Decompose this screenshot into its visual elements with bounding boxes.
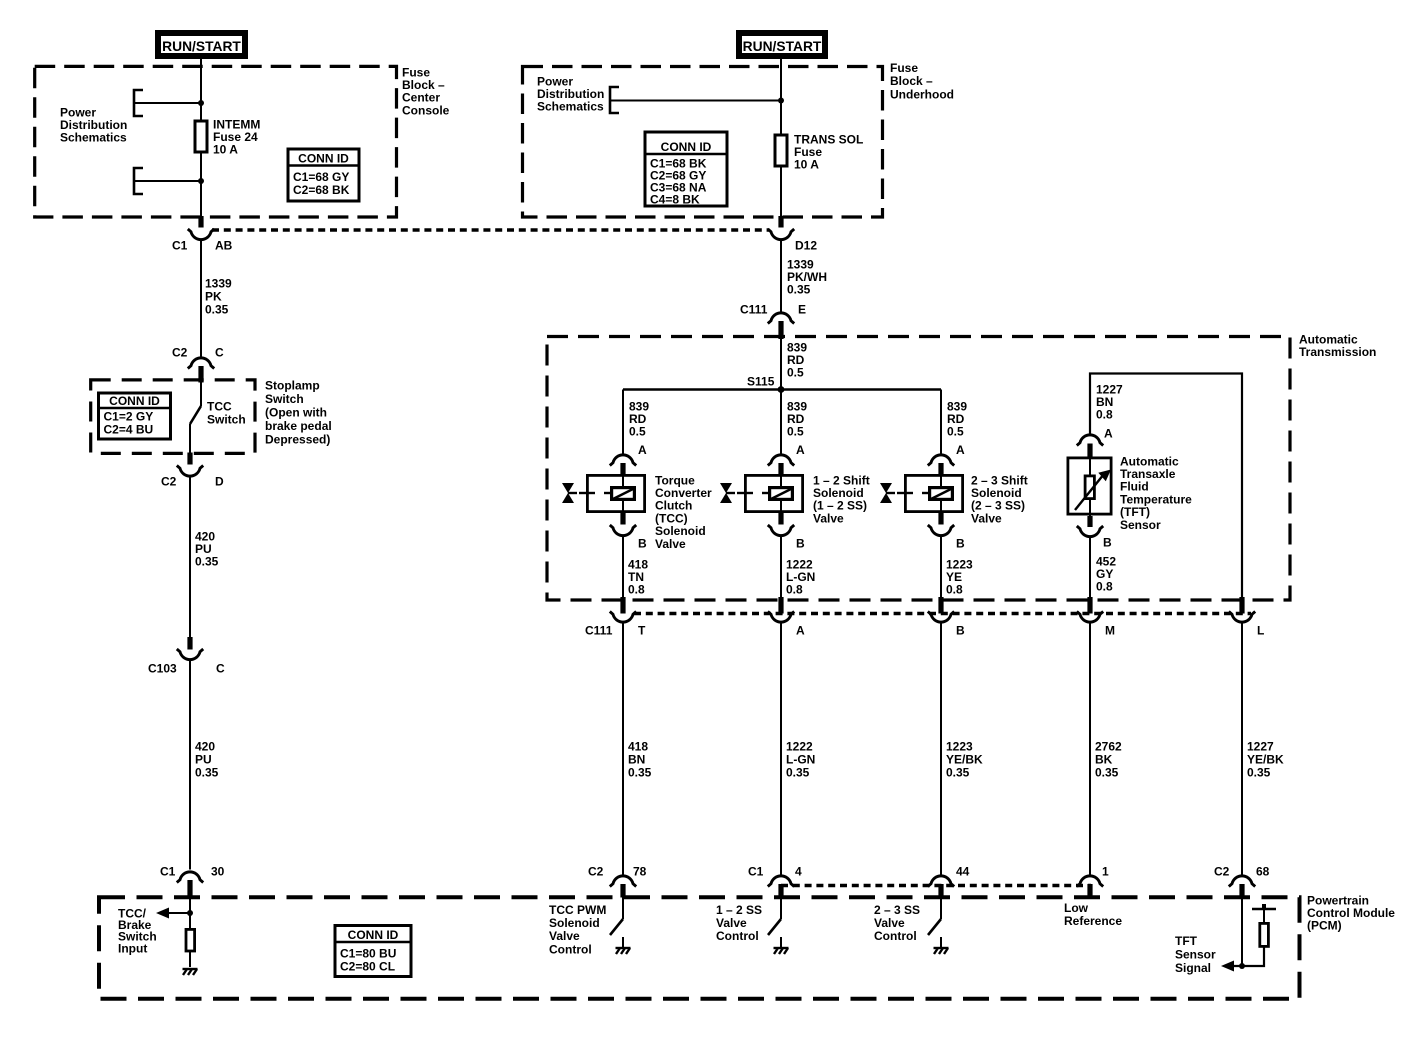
connector C2 pin D bbox=[161, 453, 224, 489]
svg-text:Transmission: Transmission bbox=[1299, 345, 1376, 359]
svg-text:Low: Low bbox=[1064, 901, 1089, 915]
svg-text:Control: Control bbox=[874, 929, 917, 943]
dotted harness line below transmission bbox=[634, 612, 1251, 615]
wire S115 bus bbox=[623, 388, 941, 391]
svg-text:E: E bbox=[798, 302, 806, 316]
svg-text:0.35: 0.35 bbox=[205, 302, 229, 316]
wire TCC solenoid pin B down bbox=[622, 536, 624, 604]
wire C111 E to splice S115 bbox=[780, 337, 782, 390]
svg-text:Block –: Block – bbox=[890, 74, 933, 88]
svg-text:0.5: 0.5 bbox=[787, 425, 804, 439]
connector C111 pin T bbox=[585, 597, 646, 637]
label fuse 24 bbox=[213, 117, 260, 156]
label TCC/Brake Switch Input bbox=[118, 906, 157, 955]
wire pin into PCM driver 2 bbox=[780, 897, 782, 919]
svg-text:Valve: Valve bbox=[655, 537, 686, 551]
svg-text:Schematics: Schematics bbox=[537, 100, 604, 114]
bracket to power distribution (lower) bbox=[134, 168, 143, 194]
svg-text:YE/BK: YE/BK bbox=[1247, 752, 1284, 766]
label Power Distribution Schematics (right) bbox=[537, 74, 604, 113]
svg-text:2 – 3 SS: 2 – 3 SS bbox=[874, 903, 920, 917]
svg-text:Underhood: Underhood bbox=[890, 87, 954, 101]
svg-text:Valve: Valve bbox=[813, 511, 844, 525]
svg-text:PK: PK bbox=[205, 289, 222, 303]
svg-text:Reference: Reference bbox=[1064, 914, 1122, 928]
svg-text:0.35: 0.35 bbox=[1247, 765, 1271, 779]
label Powertrain Control Module (PCM) bbox=[1307, 893, 1395, 932]
svg-text:C103: C103 bbox=[148, 661, 177, 675]
svg-text:M: M bbox=[1105, 623, 1115, 637]
svg-text:1: 1 bbox=[1102, 864, 1109, 878]
wire resistor to signal node bbox=[1233, 945, 1264, 966]
label TCC PWM Solenoid Valve Control bbox=[549, 903, 606, 957]
svg-text:C1=2 GY: C1=2 GY bbox=[104, 409, 154, 423]
svg-text:D: D bbox=[215, 474, 224, 488]
svg-text:68: 68 bbox=[1256, 864, 1270, 878]
svg-text:C1: C1 bbox=[160, 864, 176, 878]
wire 1222/L-GN/0.35 to PCM bbox=[780, 623, 782, 875]
connector C103 pin C bbox=[148, 637, 225, 675]
label wire 1223/YE/0.8 bbox=[946, 557, 973, 596]
bracket to power distribution (right block) bbox=[610, 87, 619, 113]
svg-text:30: 30 bbox=[211, 864, 225, 878]
svg-text:C1=80 BU: C1=80 BU bbox=[340, 947, 396, 961]
label 1 - 2 SS Valve Control bbox=[716, 903, 762, 943]
splice S115 bbox=[747, 374, 784, 393]
svg-text:L-GN: L-GN bbox=[786, 752, 815, 766]
svg-text:0.5: 0.5 bbox=[787, 366, 804, 380]
label wire 1339 PK/WH 0.35 bbox=[787, 257, 827, 296]
dotted harness line between pins 44 and 1 bbox=[781, 884, 1091, 887]
svg-text:(Open with: (Open with bbox=[265, 405, 327, 419]
svg-text:C2: C2 bbox=[1214, 864, 1230, 878]
wire pin into PCM driver 3 bbox=[940, 897, 942, 919]
wire bracket to node (lower) bbox=[134, 180, 201, 182]
label wire 1227/YE/BK/0.35 bbox=[1247, 739, 1284, 779]
svg-text:418: 418 bbox=[628, 739, 648, 753]
label Power Distribution Schematics (left) bbox=[60, 105, 127, 144]
svg-text:RUN/START: RUN/START bbox=[743, 39, 822, 54]
wire D12 to C111 pin E, circuit 1339 PK/WH bbox=[780, 240, 782, 312]
label wire 418/TN/0.8 bbox=[628, 557, 648, 596]
svg-text:C111: C111 bbox=[740, 302, 768, 316]
pin A connector of 1-2 shift solenoid bbox=[768, 443, 805, 475]
svg-text:AB: AB bbox=[215, 238, 233, 252]
arrow TFT sensor signal bbox=[1221, 961, 1234, 972]
wire S115 branch to 2-3 shift solenoid pin A bbox=[940, 390, 942, 456]
svg-text:0.8: 0.8 bbox=[1096, 580, 1113, 594]
label automatic transaxle fluid temperature TFT sensor bbox=[1120, 454, 1192, 532]
label 2-3 shift solenoid valve bbox=[971, 473, 1028, 525]
wire bracket to node bbox=[134, 102, 201, 104]
connector C111 pin L bbox=[1229, 597, 1265, 637]
wire supply to resistor bbox=[1263, 909, 1265, 923]
label Fuse Block - Underhood bbox=[890, 61, 954, 102]
svg-text:CONN ID: CONN ID bbox=[298, 151, 349, 165]
svg-text:C1: C1 bbox=[172, 238, 188, 252]
arrow TCC/brake switch input bbox=[156, 908, 169, 919]
svg-text:C1: C1 bbox=[748, 864, 764, 878]
svg-text:TFT: TFT bbox=[1175, 934, 1198, 948]
label TCC solenoid valve bbox=[655, 473, 712, 551]
wire C1 AB to C2 C, circuit 1339 PK bbox=[200, 240, 202, 357]
ground (PCM internal, left) bbox=[183, 969, 198, 975]
label wire 2762/BK/0.35 bbox=[1095, 739, 1122, 779]
label wire 839 RD 0.5 (feed) bbox=[787, 340, 807, 379]
switch PCM driver 1 bbox=[610, 919, 623, 935]
label TFT Sensor Signal bbox=[1175, 934, 1216, 975]
svg-text:D12: D12 bbox=[795, 238, 817, 252]
svg-text:Sensor: Sensor bbox=[1175, 947, 1216, 961]
wire 1-2 shift solenoid pin B down bbox=[780, 536, 782, 604]
svg-text:C2: C2 bbox=[588, 864, 604, 878]
svg-text:10 A: 10 A bbox=[213, 143, 238, 157]
svg-text:0.8: 0.8 bbox=[1096, 408, 1113, 422]
label wire 1339 PK 0.35 bbox=[205, 276, 232, 316]
svg-text:RUN/START: RUN/START bbox=[162, 39, 241, 54]
svg-text:420: 420 bbox=[195, 739, 215, 753]
svg-text:0.8: 0.8 bbox=[628, 583, 645, 597]
TCC switch blade bbox=[190, 381, 201, 453]
wire TFT sensor pin B down, circuit 452 GY bbox=[1089, 537, 1091, 604]
CONN ID table (center console) bbox=[288, 149, 359, 201]
svg-text:0.8: 0.8 bbox=[946, 583, 963, 597]
pin B connector of TCC solenoid bbox=[610, 513, 647, 550]
label wire 452 GY 0.8 bbox=[1096, 554, 1116, 593]
node junction at fuse 24 top feed bbox=[198, 100, 204, 106]
svg-text:S115: S115 bbox=[747, 374, 775, 388]
node junction below fuse 24 bbox=[198, 178, 204, 184]
svg-text:Sensor: Sensor bbox=[1120, 518, 1161, 532]
stoplamp switch dashed box bbox=[91, 380, 255, 454]
pin B connector of 1-2 shift solenoid bbox=[768, 513, 805, 550]
svg-text:(PCM): (PCM) bbox=[1307, 919, 1342, 933]
PCM connector pin 4 bbox=[748, 864, 802, 897]
wire 418/BN/0.35 to PCM bbox=[622, 623, 624, 875]
automatic transmission dashed box bbox=[547, 337, 1290, 601]
wire 1223/YE/BK/0.35 to PCM bbox=[940, 623, 942, 875]
svg-text:44: 44 bbox=[956, 864, 970, 878]
CONN ID table (stoplamp switch) bbox=[99, 393, 171, 439]
label wire 839 RD 0.5 (TCC branch) bbox=[629, 399, 649, 438]
svg-text:0.35: 0.35 bbox=[786, 765, 810, 779]
svg-text:CONN ID: CONN ID bbox=[109, 394, 160, 408]
label wire 418/BN/0.35 bbox=[628, 739, 652, 779]
svg-text:TCC: TCC bbox=[207, 399, 232, 413]
svg-text:A: A bbox=[638, 443, 647, 457]
resistor R3 TFT bias bbox=[1260, 923, 1269, 946]
label Low Reference bbox=[1064, 901, 1122, 928]
svg-text:78: 78 bbox=[633, 864, 647, 878]
svg-text:Signal: Signal bbox=[1175, 961, 1211, 975]
wire to TCC brake arrow bbox=[168, 912, 190, 914]
svg-text:CONN ID: CONN ID bbox=[661, 140, 712, 154]
pin B connector of TFT sensor bbox=[1077, 516, 1112, 549]
svg-text:C2=80 CL: C2=80 CL bbox=[340, 960, 395, 974]
svg-text:Solenoid: Solenoid bbox=[549, 916, 600, 930]
svg-text:1222: 1222 bbox=[786, 739, 813, 753]
svg-text:0.35: 0.35 bbox=[195, 765, 219, 779]
svg-text:0.35: 0.35 bbox=[628, 765, 652, 779]
wire trans sol fuse to connector D12 bbox=[780, 167, 782, 216]
internal supply tick bbox=[1252, 908, 1276, 911]
label Automatic Transmission bbox=[1299, 332, 1376, 359]
svg-text:10 A: 10 A bbox=[794, 158, 819, 172]
powertrain control module dashed box bbox=[99, 897, 1300, 999]
PCM connector C1 pin 30 bbox=[160, 864, 225, 897]
label Stoplamp Switch (Open with brake pedal Depressed) bbox=[265, 378, 332, 446]
svg-text:1 – 2 SS: 1 – 2 SS bbox=[716, 903, 762, 917]
svg-text:A: A bbox=[796, 623, 805, 637]
wire C103 to PCM pin 30, circuit 420 PU bbox=[189, 660, 191, 870]
wire 2-3 shift solenoid pin B down bbox=[940, 536, 942, 604]
svg-text:Valve: Valve bbox=[549, 929, 580, 943]
svg-text:B: B bbox=[1103, 535, 1112, 549]
svg-text:C2: C2 bbox=[172, 345, 188, 359]
svg-text:B: B bbox=[956, 536, 965, 550]
connector C111 pin B bbox=[928, 597, 965, 637]
svg-text:B: B bbox=[956, 623, 965, 637]
svg-text:L: L bbox=[1257, 623, 1264, 637]
dotted harness line to D12 bbox=[212, 228, 769, 231]
fuse block - center console dashed box bbox=[35, 66, 397, 217]
svg-text:0.35: 0.35 bbox=[946, 765, 970, 779]
svg-text:C2=4 BU: C2=4 BU bbox=[104, 422, 154, 436]
solenoid L1 torque converter clutch TCC bbox=[562, 474, 645, 513]
svg-text:PU: PU bbox=[195, 752, 212, 766]
pin A connector of TCC solenoid bbox=[610, 443, 647, 475]
node junction at trans sol fuse feed bbox=[778, 98, 784, 104]
svg-text:Switch: Switch bbox=[265, 392, 304, 406]
wire 1227/YE/BK/0.35 to PCM bbox=[1241, 623, 1243, 875]
svg-text:0.5: 0.5 bbox=[947, 425, 964, 439]
svg-text:A: A bbox=[1104, 426, 1113, 440]
connector C111 pin A bbox=[768, 597, 805, 637]
svg-text:brake pedal: brake pedal bbox=[265, 419, 332, 433]
wire pin 68 to TFT signal node bbox=[1241, 897, 1243, 966]
fuse F24 INTEMM bbox=[195, 121, 207, 152]
power feed label RUN/START (right) bbox=[739, 33, 825, 56]
svg-text:C: C bbox=[216, 661, 225, 675]
svg-text:C4=8 BK: C4=8 BK bbox=[650, 192, 700, 206]
svg-text:Stoplamp: Stoplamp bbox=[265, 378, 320, 392]
svg-text:B: B bbox=[796, 536, 805, 550]
svg-text:Fuse: Fuse bbox=[890, 61, 918, 75]
solenoid L2 1-2 shift bbox=[720, 474, 803, 513]
svg-text:1339: 1339 bbox=[205, 276, 232, 290]
label wire 1223/YE/BK/0.35 bbox=[946, 739, 983, 779]
svg-text:C2: C2 bbox=[161, 474, 177, 488]
switch PCM driver 2 bbox=[768, 919, 781, 935]
svg-text:0.8: 0.8 bbox=[786, 583, 803, 597]
label wire 1227 BN 0.8 bbox=[1096, 382, 1123, 421]
label wire 1222/L-GN/0.8 bbox=[786, 557, 815, 596]
svg-text:0.35: 0.35 bbox=[195, 554, 219, 568]
svg-text:BN: BN bbox=[628, 752, 645, 766]
label wire 839 RD 0.5 (1-2 shift branch) bbox=[787, 399, 807, 438]
label trans sol fuse bbox=[794, 132, 863, 171]
wire S115 branch to 1-2 shift solenoid pin A bbox=[780, 390, 782, 456]
svg-text:C: C bbox=[215, 345, 224, 359]
wire RUN/START to trans sol fuse bbox=[780, 59, 782, 134]
svg-text:C1=68 GY: C1=68 GY bbox=[293, 170, 349, 184]
resistor R2 PCM pull-up bbox=[186, 929, 195, 951]
svg-text:Input: Input bbox=[118, 941, 147, 955]
svg-text:TCC PWM: TCC PWM bbox=[549, 903, 606, 917]
fuse block - underhood dashed box bbox=[523, 67, 883, 218]
wire 2762/BK/0.35 to PCM bbox=[1089, 623, 1091, 875]
node junction TFT signal bbox=[1239, 963, 1245, 969]
fuse TRANS SOL bbox=[775, 135, 787, 166]
svg-text:1227: 1227 bbox=[1247, 739, 1274, 753]
svg-text:CONN ID: CONN ID bbox=[348, 928, 399, 942]
connector C111 pin M bbox=[1077, 597, 1115, 637]
svg-text:0.35: 0.35 bbox=[787, 283, 811, 297]
label 1-2 shift solenoid valve bbox=[813, 473, 870, 525]
power feed label RUN/START (left) bbox=[158, 33, 245, 56]
svg-text:B: B bbox=[638, 536, 647, 550]
CONN ID table (underhood) bbox=[645, 132, 727, 206]
svg-text:Control: Control bbox=[549, 942, 592, 956]
label wire 839 RD 0.5 (2-3 shift branch) bbox=[947, 399, 967, 438]
label wire 420 PU 0.35 (upper) bbox=[195, 529, 219, 568]
CONN ID table (PCM) bbox=[335, 926, 411, 977]
svg-text:A: A bbox=[956, 443, 965, 457]
wire resistor to ground bbox=[189, 951, 191, 967]
label wire 420 PU 0.35 (lower) bbox=[195, 739, 219, 779]
svg-text:2762: 2762 bbox=[1095, 739, 1122, 753]
svg-text:Switch: Switch bbox=[207, 412, 246, 426]
PCM connector pin 1 bbox=[1077, 864, 1109, 897]
PCM connector pin 78 bbox=[588, 864, 647, 897]
svg-text:Valve: Valve bbox=[716, 916, 747, 930]
PCM connector pin 68 bbox=[1214, 864, 1270, 897]
svg-text:YE/BK: YE/BK bbox=[946, 752, 983, 766]
label wire 1222/L-GN/0.35 bbox=[786, 739, 815, 779]
svg-text:C111: C111 bbox=[585, 623, 613, 637]
pin A connector of 2-3 shift solenoid bbox=[928, 443, 965, 475]
svg-text:C2=68 BK: C2=68 BK bbox=[293, 183, 350, 197]
svg-text:4: 4 bbox=[795, 864, 802, 878]
svg-text:Valve: Valve bbox=[874, 916, 905, 930]
connector C111 pin E bbox=[740, 302, 806, 339]
node junction TCC brake input bbox=[187, 910, 193, 916]
svg-text:BK: BK bbox=[1095, 752, 1113, 766]
svg-text:Console: Console bbox=[402, 103, 450, 117]
bracket to power distribution (upper) bbox=[134, 90, 143, 116]
pin B connector of 2-3 shift solenoid bbox=[928, 513, 965, 550]
PCM connector pin 44 bbox=[928, 864, 970, 897]
wire S115 branch to TCC solenoid pin A bbox=[622, 390, 624, 456]
svg-text:1223: 1223 bbox=[946, 739, 973, 753]
wire pin into PCM driver 1 bbox=[622, 897, 624, 919]
wire pin 30 into PCM bbox=[189, 897, 191, 929]
svg-text:A: A bbox=[796, 443, 805, 457]
solenoid L3 2-3 shift bbox=[880, 474, 963, 513]
switch PCM driver 3 bbox=[928, 919, 941, 935]
svg-text:0.5: 0.5 bbox=[629, 425, 646, 439]
wire TFT sensor loop top routing bbox=[1090, 374, 1242, 605]
connector C2 pin C bbox=[172, 345, 224, 382]
pin A connector of TFT sensor bbox=[1077, 426, 1113, 457]
label 2 - 3 SS Valve Control bbox=[874, 903, 920, 943]
wire fuse 24 to connector C1 bbox=[200, 153, 202, 216]
TFT sensor R1 (thermistor) bbox=[1068, 456, 1111, 516]
wire C2 D to C103, circuit 420 PU bbox=[189, 477, 191, 639]
svg-text:Depressed): Depressed) bbox=[265, 432, 330, 446]
svg-text:Valve: Valve bbox=[971, 511, 1002, 525]
svg-text:T: T bbox=[638, 623, 646, 637]
wire bracket to node (right block) bbox=[610, 100, 781, 102]
connector D12 bbox=[768, 216, 818, 252]
wire RUN/START to fuse 24 bbox=[200, 59, 202, 120]
svg-text:0.35: 0.35 bbox=[1095, 765, 1119, 779]
connector C1 pin AB bbox=[172, 216, 233, 252]
label TCC Switch bbox=[207, 399, 246, 426]
svg-text:Schematics: Schematics bbox=[60, 131, 127, 145]
svg-text:Control: Control bbox=[716, 929, 759, 943]
label Fuse Block - Center Console bbox=[402, 65, 450, 117]
